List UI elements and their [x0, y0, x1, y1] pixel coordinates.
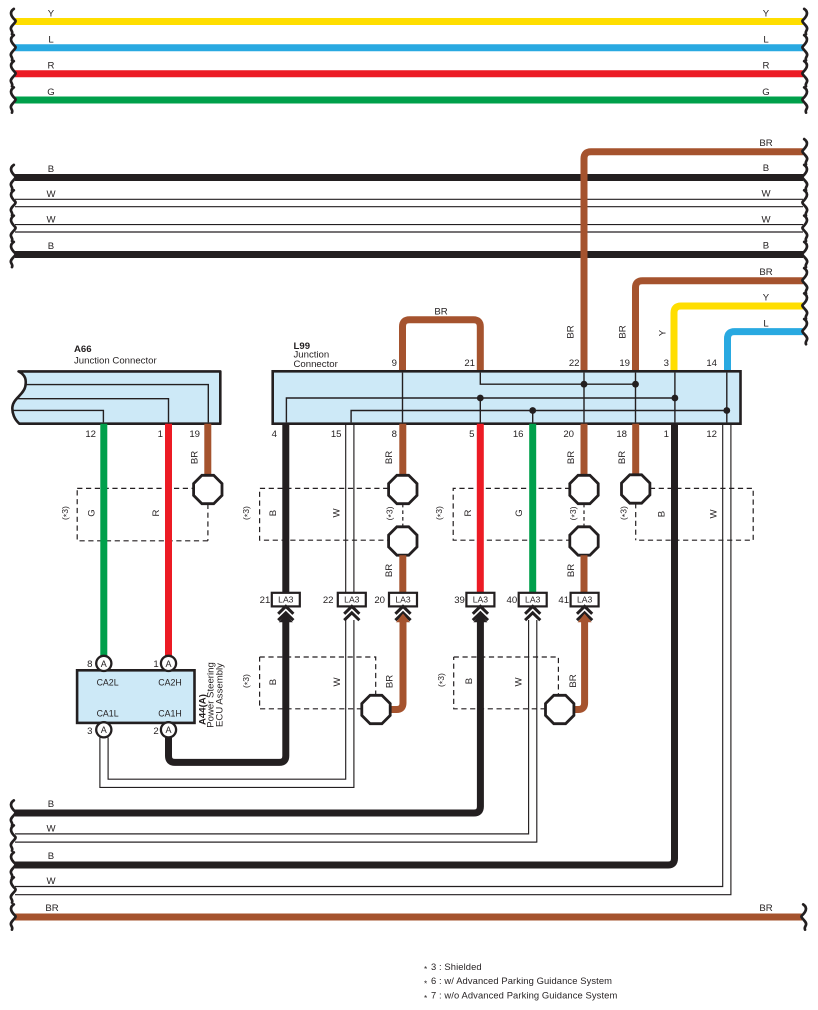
svg-text:12: 12: [706, 429, 717, 440]
svg-text:BR: BR: [434, 307, 447, 318]
wire B from connector 21 to ECU pin 2 (CA1H): [169, 614, 293, 763]
svg-text:BR: BR: [568, 674, 579, 687]
svg-text:15: 15: [331, 429, 342, 440]
svg-text:40: 40: [507, 595, 518, 606]
wire B bottom bus 1: [48, 799, 54, 810]
svg-text:Y: Y: [48, 8, 55, 19]
svg-text:ECU Assembly: ECU Assembly: [215, 663, 226, 727]
wire G from L99 pin 16 to connector 40 LA3: [529, 424, 536, 593]
svg-text:18: 18: [616, 429, 627, 440]
wire BR from octagon to connector 41 LA3: [566, 555, 584, 593]
shield box (*3) under L99 pins 4/15: [241, 488, 388, 540]
shield octagon at A66: [194, 475, 222, 503]
wire W (white bus 2): [15, 214, 803, 232]
break symbols left edge: [11, 9, 16, 930]
svg-text:9: 9: [392, 358, 397, 369]
connector 20 LA3: [374, 593, 417, 607]
svg-text:B: B: [464, 678, 475, 684]
svg-text:W: W: [709, 509, 720, 519]
svg-text:1: 1: [664, 429, 669, 440]
svg-text:G: G: [514, 509, 525, 516]
connector 39 mating chevrons: [473, 606, 488, 620]
wire B bottom bus 2: [48, 851, 54, 862]
svg-text:(*3): (*3): [60, 506, 72, 520]
svg-text:W: W: [514, 677, 525, 687]
ECU pin 1: [153, 656, 176, 671]
svg-text:W: W: [332, 508, 343, 518]
shield box (*3) under L99 pins 1/12: [619, 488, 754, 540]
wire BR bottom bus: [15, 903, 802, 917]
svg-text:BR: BR: [617, 451, 628, 464]
svg-text:L: L: [763, 318, 769, 329]
svg-text:BR: BR: [566, 451, 577, 464]
wire BR from L99 pin 8 to shield octagons: [384, 424, 403, 476]
svg-text:(*3): (*3): [241, 674, 253, 688]
svg-text:(*3): (*3): [619, 506, 631, 520]
svg-text:3: 3: [664, 358, 669, 369]
svg-text:CA2H: CA2H: [158, 678, 181, 688]
wire G from A66 pin 12 to ECU pin 8: [100, 424, 107, 656]
wire B from L99 pin 1 to bottom bus: [15, 424, 675, 865]
shield octagon chain under pin 8: [385, 475, 417, 555]
svg-text:5: 5: [469, 429, 474, 440]
wire W (white bus 1): [15, 189, 803, 207]
L99 bottom pin numbers: [272, 429, 717, 440]
svg-text:Y: Y: [763, 8, 770, 19]
svg-text:G: G: [47, 87, 54, 98]
shield octagon under pin 18: [622, 475, 650, 503]
svg-text:W: W: [46, 214, 56, 225]
svg-text:21: 21: [260, 595, 271, 606]
svg-text:14: 14: [706, 358, 717, 369]
ECU pin 2: [153, 722, 176, 737]
shield box (*3) above ECU (B/W): [241, 657, 376, 709]
wire BR to L99 pin 22: [566, 138, 804, 371]
connector 22 LA3: [323, 593, 366, 607]
svg-text:W: W: [46, 824, 56, 835]
svg-text:41: 41: [558, 595, 569, 606]
connector 39 LA3: [454, 593, 494, 607]
wire R from A66 pin 1 to ECU pin 1: [165, 424, 172, 656]
shield octagon left of connector 41 wire: [546, 695, 574, 723]
svg-text:B: B: [268, 510, 279, 516]
wire B from L99 pin 4 to connector 21 LA3: [282, 424, 289, 593]
wire R (red): [15, 61, 803, 74]
svg-text:CA1L: CA1L: [97, 708, 119, 718]
wire BR from octagon to connector 20 LA3: [384, 555, 403, 593]
wire B (black bus upper): [15, 163, 803, 178]
connector 40 mating chevrons: [525, 606, 540, 620]
ECU A44(A) Power Steering ECU Assembly: [77, 662, 225, 728]
svg-text:20: 20: [563, 429, 574, 440]
svg-text:22: 22: [323, 595, 334, 606]
svg-text:R: R: [463, 509, 474, 516]
wire G (green): [15, 87, 803, 100]
svg-text:(*3): (*3): [241, 506, 253, 520]
connector 21 mating chevrons: [278, 606, 293, 620]
svg-text:W: W: [46, 189, 56, 200]
svg-text:22: 22: [569, 358, 580, 369]
wire BR from L99 pin 20 to shield octagons: [566, 424, 584, 476]
wire BR from L99 pin 18 to shield octagon: [617, 424, 636, 475]
svg-text:BR: BR: [190, 451, 201, 464]
svg-text:CA2L: CA2L: [97, 678, 119, 688]
svg-text:7 : w/o Advanced Parking Guida: 7 : w/o Advanced Parking Guidance System: [431, 990, 617, 1001]
svg-text:4: 4: [272, 429, 278, 440]
svg-text:3: 3: [87, 726, 92, 737]
svg-text:R: R: [763, 61, 770, 72]
svg-text:16: 16: [513, 429, 524, 440]
svg-text:BR: BR: [385, 675, 396, 688]
svg-text:A66: A66: [74, 344, 92, 355]
svg-text:B: B: [48, 799, 54, 810]
svg-text:B: B: [48, 851, 54, 862]
svg-text:1: 1: [153, 659, 158, 670]
wire B (black bus lower): [15, 240, 803, 254]
svg-text:3 : Shielded: 3 : Shielded: [431, 961, 482, 972]
svg-text:12: 12: [85, 429, 96, 440]
wire R from L99 pin 5 to connector 39 LA3: [477, 424, 484, 593]
svg-text:W: W: [761, 189, 771, 200]
wire L (blue): [15, 35, 803, 48]
svg-text:(*3): (*3): [434, 506, 446, 520]
wire W from L99 pin 12 to bottom bus: [15, 424, 731, 895]
junction connector A66: [12, 344, 220, 440]
svg-text:B: B: [763, 163, 769, 174]
wire B from connector 39 to bottom bus: [15, 614, 487, 813]
junction connector L99: [273, 341, 741, 424]
wire BR to L99 pin 19: [618, 267, 804, 371]
connector 20 mating chevrons: [395, 606, 410, 620]
svg-text:6 : w/ Advanced Parking Guidan: 6 : w/ Advanced Parking Guidance System: [431, 975, 612, 986]
shield box (*3) under A66: [60, 488, 208, 540]
shield box (*3) under L99 pins 5/16: [434, 488, 570, 540]
svg-text:BR: BR: [45, 903, 58, 914]
wire W bottom bus 2: [46, 876, 56, 887]
note *3 Shielded: [424, 961, 482, 974]
L99 top pin numbers: [392, 358, 718, 369]
svg-text:CA1H: CA1H: [158, 708, 181, 718]
wire BR from connector 41 to shield octagon: [568, 614, 592, 710]
wire Y (yellow, top): [15, 8, 803, 21]
svg-text:2: 2: [153, 726, 158, 737]
svg-text:(*3): (*3): [436, 673, 448, 687]
svg-text:G: G: [87, 509, 98, 516]
shield octagon chain under pin 20: [568, 475, 598, 555]
svg-text:1: 1: [158, 429, 163, 440]
shield box (*3) right (B/W) with octagon: [436, 657, 558, 709]
svg-text:B: B: [48, 164, 54, 175]
wire BR from A66 pin 19 to shield octagon: [190, 424, 208, 476]
svg-text:BR: BR: [759, 138, 772, 149]
wire W from L99 pin 15 to connector 22 LA3: [346, 424, 354, 593]
ECU pin 3: [87, 722, 111, 737]
svg-text:8: 8: [87, 659, 92, 670]
svg-text:BR: BR: [384, 451, 395, 464]
connector 22 mating chevrons: [344, 606, 359, 620]
wire W bottom bus 1: [15, 824, 537, 843]
break symbols right edge: [801, 9, 807, 930]
svg-text:Connector: Connector: [294, 359, 339, 370]
svg-text:20: 20: [374, 595, 385, 606]
svg-text:L: L: [48, 35, 54, 46]
note *6 w/ Advanced Parking Guidance System: [424, 975, 612, 988]
svg-text:W: W: [46, 876, 56, 887]
svg-text:39: 39: [454, 595, 465, 606]
connector 21 LA3: [260, 593, 300, 607]
svg-text:19: 19: [619, 358, 630, 369]
svg-text:Junction Connector: Junction Connector: [74, 355, 157, 366]
svg-text:BR: BR: [618, 325, 629, 338]
connector 41 mating chevrons: [577, 606, 592, 620]
wire W from connector 22 to ECU pin 3 (CA1L): [100, 620, 354, 787]
svg-text:BR: BR: [384, 564, 395, 577]
svg-text:W: W: [761, 214, 771, 225]
wire BR loop L99 pin 9 to pin 21: [403, 307, 481, 372]
svg-text:BR: BR: [759, 903, 772, 914]
ECU pin 8: [87, 656, 111, 671]
svg-text:R: R: [151, 509, 162, 516]
svg-text:L: L: [763, 35, 769, 46]
svg-text:BR: BR: [566, 325, 577, 338]
wire BR from connector 20 to shield octagon: [385, 614, 411, 710]
wire Y to L99 pin 3: [658, 293, 804, 371]
connector 41 LA3: [558, 593, 598, 607]
note *7 w/o Advanced Parking Guidance System: [424, 990, 617, 1003]
wire W from connector 40 to bottom bus: [15, 620, 537, 842]
svg-text:(*3): (*3): [568, 506, 580, 520]
svg-text:B: B: [657, 511, 668, 517]
svg-text:G: G: [762, 87, 769, 98]
svg-text:21: 21: [464, 358, 475, 369]
svg-text:B: B: [763, 240, 769, 251]
svg-text:8: 8: [392, 429, 397, 440]
svg-text:W: W: [332, 677, 343, 687]
svg-text:B: B: [268, 679, 279, 685]
wire L to L99 pin 14: [728, 318, 804, 371]
svg-text:BR: BR: [566, 564, 577, 577]
svg-text:(*3): (*3): [385, 506, 397, 520]
svg-text:BR: BR: [759, 267, 772, 278]
connector 40 LA3: [507, 593, 547, 607]
svg-text:R: R: [48, 61, 55, 72]
shield octagon left of connector 20 wire: [362, 695, 390, 723]
svg-text:19: 19: [189, 429, 200, 440]
svg-text:Y: Y: [658, 329, 669, 336]
svg-text:B: B: [48, 241, 54, 252]
svg-text:Y: Y: [763, 293, 770, 304]
